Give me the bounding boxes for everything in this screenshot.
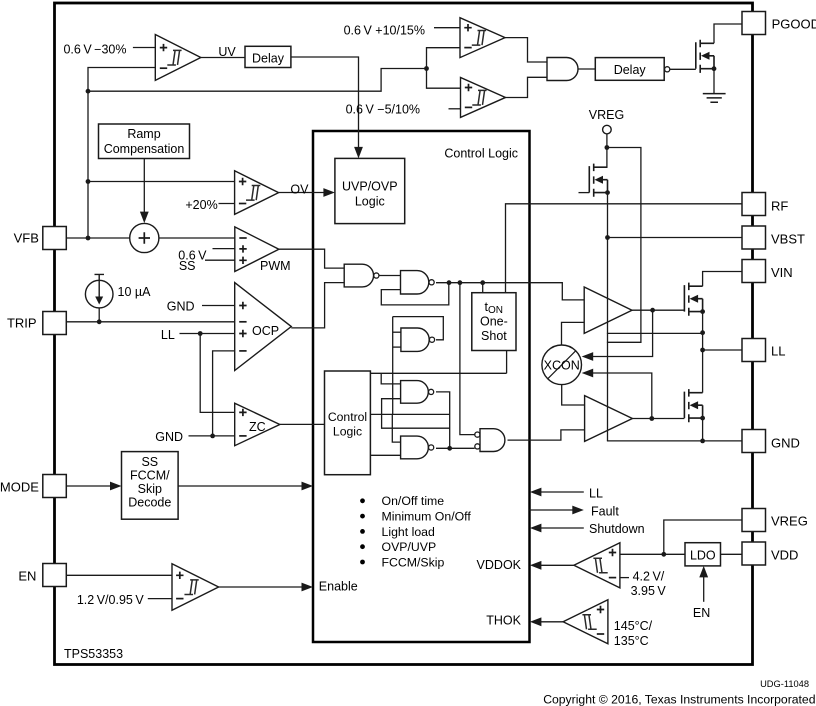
comparator UV (undervoltage) xyxy=(155,35,201,81)
wire +20% stub xyxy=(219,203,235,205)
control logic block (inner) xyxy=(325,371,371,475)
wire LL to ZC plus xyxy=(200,334,235,413)
wire PG-low minus stub xyxy=(449,108,461,110)
svg-text:LL: LL xyxy=(589,487,603,501)
svg-text:LDO: LDO xyxy=(690,549,716,563)
wire XCON to high-side driver enable xyxy=(562,322,585,345)
wire G2 output to G6 upper xyxy=(460,283,475,435)
arrowhead XCON upper sense xyxy=(582,352,594,361)
comparator OV (overvoltage +20%) xyxy=(235,171,279,215)
node switch node junction (LL) xyxy=(700,348,705,353)
wire LDO to VDD pin xyxy=(721,553,743,555)
Control Logic block (outer) xyxy=(313,131,530,642)
wire current source to TRIP line xyxy=(98,308,100,322)
svg-text:OV: OV xyxy=(290,183,309,197)
comparator ZC (zero cross) xyxy=(235,403,280,446)
arrowhead XCON lower sense xyxy=(582,369,594,378)
wire Delay2 to PGOOD FET gate xyxy=(670,68,696,70)
wire OCP output to NAND G1 lower xyxy=(291,283,344,328)
wire G4 lower input loop xyxy=(382,399,450,429)
plus input UV+ xyxy=(160,44,167,51)
wire LL pin line xyxy=(703,349,742,351)
svg-text:MODE: MODE xyxy=(0,480,39,495)
svg-text:Fault: Fault xyxy=(591,505,619,519)
svg-text:+20%: +20% xyxy=(185,198,217,212)
wire low-side driver output xyxy=(632,418,684,420)
svg-text:3.95 V: 3.95 V xyxy=(631,584,667,598)
wire G4 output down xyxy=(436,392,450,448)
wire G5 upper input xyxy=(392,414,400,442)
LDO block xyxy=(685,543,721,566)
comparator PG low (0.6V -5/10%) xyxy=(461,78,506,118)
node G2 output junction 3 xyxy=(480,280,485,285)
svg-text:On/Off time: On/Off time xyxy=(382,494,445,508)
wire boot switch source rail xyxy=(607,193,609,441)
svg-text:THOK: THOK xyxy=(486,614,521,628)
wire PGOOD FET drain to PGOOD pin xyxy=(714,24,743,43)
pin LL xyxy=(742,339,766,362)
plus input OV+ xyxy=(239,178,246,185)
svg-text:Shutdown: Shutdown xyxy=(589,522,645,536)
hysteresis symbol UV (undervoltage) xyxy=(167,50,181,65)
wire GND to OCP plus xyxy=(202,305,235,307)
svg-text:VIN: VIN xyxy=(771,265,793,280)
svg-text:RF: RF xyxy=(771,199,788,214)
pin VIN xyxy=(742,260,766,283)
wire boot switch gate stub xyxy=(579,192,590,194)
wire LS output to XCON sense xyxy=(593,373,652,419)
tON one-shot block xyxy=(472,293,516,351)
plus input OCP+2 xyxy=(239,330,246,337)
control logic function list xyxy=(360,498,365,503)
pin VREG xyxy=(742,509,766,532)
gate G2 NAND xyxy=(401,271,429,294)
svg-text:LL: LL xyxy=(771,344,785,359)
wire GND to ZC minus xyxy=(189,435,235,437)
wire OV output to UVP/OVP logic xyxy=(279,192,326,194)
svg-text:0.6 V −5/10%: 0.6 V −5/10% xyxy=(346,103,420,117)
svg-text:GND: GND xyxy=(167,300,195,314)
minus input PGH- xyxy=(464,47,471,49)
wire THOK line xyxy=(541,621,563,623)
svg-text:UDG-11048: UDG-11048 xyxy=(760,679,809,689)
wire G5 output to G6 xyxy=(436,447,475,449)
node HS gate node xyxy=(650,308,655,313)
pin EN xyxy=(43,564,67,587)
svg-text:OCP: OCP xyxy=(252,324,279,338)
arrowhead enable into control logic xyxy=(302,583,314,592)
svg-text:Light load: Light load xyxy=(382,525,435,539)
wire EN to LDO xyxy=(703,575,705,602)
svg-text:Ramp: Ramp xyxy=(127,127,160,141)
arrowhead LL status into control logic xyxy=(530,488,542,497)
node boot source node xyxy=(605,190,610,195)
wire Fault line xyxy=(530,509,573,511)
wire EN to comparator xyxy=(66,574,172,576)
wire LS source to GND xyxy=(702,418,704,441)
plus input PGH+ xyxy=(464,24,471,31)
hysteresis symbol THOK xyxy=(582,615,596,630)
plus input PWM+1 xyxy=(239,245,246,252)
svg-text:GND: GND xyxy=(771,436,800,451)
wire G2 output to high-side driver xyxy=(436,283,584,300)
wire HS drain to VIN pin xyxy=(703,272,742,287)
plus input PGL+ xyxy=(465,84,472,91)
node GND-ZC junction xyxy=(210,434,215,439)
wire 0.6V ref stub xyxy=(213,248,235,250)
transistor Q2 high-side power FET xyxy=(684,283,702,316)
svg-text:TPS53353: TPS53353 xyxy=(64,647,123,661)
svg-text:Control: Control xyxy=(328,410,367,424)
transistor Q3 low-side power FET xyxy=(684,389,702,422)
svg-text:Delay: Delay xyxy=(252,51,285,65)
comparator THOK (left facing) xyxy=(563,600,608,644)
pin MODE xyxy=(43,475,67,498)
transistor Q1 PGOOD open-drain xyxy=(696,40,714,73)
wire G6 output to low-side driver xyxy=(508,430,585,440)
arrowhead EN into LDO xyxy=(699,566,708,578)
wire PG-high output to AND xyxy=(505,38,547,62)
wire VREG pin to LDO input xyxy=(664,520,742,554)
SS FCCM/Skip Decode block xyxy=(122,452,179,520)
driver high-side xyxy=(584,287,632,333)
wire ZC output to control logic xyxy=(280,423,325,425)
svg-text:145°C/: 145°C/ xyxy=(614,619,653,633)
node switch node junction (boot) xyxy=(700,330,705,335)
hysteresis symbol OV (overvoltage +20%) xyxy=(246,186,260,201)
svg-text:ZC: ZC xyxy=(249,420,266,434)
svg-text:VDDOK: VDDOK xyxy=(477,558,522,572)
comparator PWM xyxy=(235,227,279,272)
ramp compensation block xyxy=(99,124,190,159)
wire VREG branch loop xyxy=(607,148,641,343)
delay block 2 xyxy=(595,58,664,81)
minus input EN- xyxy=(176,598,183,600)
arrowhead OV into UVP/OVP Logic xyxy=(323,188,335,197)
pin GND xyxy=(742,430,766,453)
arrowhead VDDOK into control logic xyxy=(530,561,542,570)
minus input PGL- xyxy=(465,106,472,108)
svg-text:SS: SS xyxy=(179,259,196,273)
wire UV minus input to VFB riser xyxy=(88,68,155,239)
driver low-side xyxy=(585,396,633,442)
wire SS stub xyxy=(205,259,235,261)
arrowhead into summing node xyxy=(140,212,149,224)
node PGOOD FET source node xyxy=(712,66,717,71)
svg-text:TRIP: TRIP xyxy=(7,316,37,331)
pin VBST xyxy=(742,226,766,249)
node PGOOD comparator input junction xyxy=(424,66,429,71)
wire one-shot bottom to control line xyxy=(506,351,508,374)
wire ramp comp to summer xyxy=(143,159,145,216)
wire trigger to one-shot xyxy=(482,283,484,293)
minus input VDDOK- xyxy=(609,577,616,579)
svg-text:VBST: VBST xyxy=(771,232,805,247)
node switch node (HS source) xyxy=(700,309,705,314)
minus input OV- xyxy=(239,203,246,205)
wire one-shot to RF pin xyxy=(506,204,743,293)
gate G1 NAND xyxy=(344,264,373,287)
svg-text:VREG: VREG xyxy=(771,514,808,529)
node LL input junction xyxy=(198,331,203,336)
wire VREG to boot switch drain xyxy=(606,134,608,168)
gate G3 NAND xyxy=(401,328,429,351)
wire VDDOK line xyxy=(541,564,574,566)
wire 1.2V stub xyxy=(148,598,172,600)
wire VDDOK threshold stub xyxy=(620,577,629,579)
svg-text:LL: LL xyxy=(161,328,175,342)
wire MODE to decoder xyxy=(66,485,112,487)
node VBST junction xyxy=(605,235,610,240)
wire decoder to control logic xyxy=(178,485,304,487)
svg-text:VREG: VREG xyxy=(589,108,624,122)
svg-text:Minimum On/Off: Minimum On/Off xyxy=(382,510,472,524)
arrowhead Shutdown into control logic xyxy=(530,524,542,533)
transistor Q4 bootstrap switch xyxy=(589,164,607,197)
wire branch to PG-high comparator minus xyxy=(427,48,461,69)
svg-text:4.2 V/: 4.2 V/ xyxy=(633,570,665,584)
svg-text:VDD: VDD xyxy=(771,548,798,563)
svg-text:PGOOD: PGOOD xyxy=(772,17,816,32)
svg-text:EN: EN xyxy=(693,606,710,620)
wire TRIP to OCP minus xyxy=(66,321,234,323)
summing node xyxy=(130,223,159,252)
svg-text:Logic: Logic xyxy=(355,195,385,209)
svg-text:EN: EN xyxy=(18,569,36,584)
svg-text:VFB: VFB xyxy=(14,231,39,246)
wire XCON to low-side driver enable xyxy=(562,384,585,405)
arrowhead THOK into control logic xyxy=(530,617,542,626)
terminal VREG xyxy=(603,125,612,134)
wire G3 upper input stub xyxy=(393,331,401,333)
node LDO input junction xyxy=(661,552,666,557)
svg-text:0.6 V +10/15%: 0.6 V +10/15% xyxy=(344,24,425,38)
plus input THOK+ xyxy=(597,606,604,613)
svg-text:OVP/UVP: OVP/UVP xyxy=(382,540,437,554)
wire LL status line xyxy=(541,491,584,493)
wire PGOOD FET source to ground xyxy=(713,69,715,94)
wire Shutdown line xyxy=(541,527,584,529)
pin VDD xyxy=(742,542,766,565)
svg-text:Decode: Decode xyxy=(128,496,171,510)
wire high-side driver output xyxy=(632,309,684,311)
node VFB feedback junction A xyxy=(86,89,91,94)
wire G3 output crosscouple xyxy=(393,317,444,340)
arrowhead Fault out xyxy=(572,506,584,515)
svg-text:FCCM/: FCCM/ xyxy=(130,469,170,483)
wire VBST line xyxy=(608,237,743,239)
UVP/OVP Logic block xyxy=(335,158,405,223)
node VFB feedback junction B (to OV+) xyxy=(86,179,91,184)
comparator OCP (overcurrent) xyxy=(235,283,292,371)
svg-text:1.2 V/0.95 V: 1.2 V/0.95 V xyxy=(77,593,145,607)
svg-text:XCON: XCON xyxy=(544,359,580,373)
svg-text:Copyright © 2016, Texas Instru: Copyright © 2016, Texas Instruments Inco… xyxy=(543,693,815,706)
wire GND line xyxy=(607,440,742,442)
ground symbol (PGOOD FET) xyxy=(703,94,726,103)
wire PWM output to NAND G1 xyxy=(279,249,344,268)
node G2 output junction 1 xyxy=(447,280,452,285)
wire G2 feedback loop xyxy=(381,283,449,305)
wire AND to Delay2 xyxy=(578,68,595,70)
wire boot refresh to switch node xyxy=(607,332,703,334)
svg-text:Delay: Delay xyxy=(614,63,647,77)
node TRIP junction xyxy=(97,319,102,324)
wire VFB pin to summer xyxy=(66,237,129,239)
svg-text:Compensation: Compensation xyxy=(104,142,185,156)
svg-text:UVP/OVP: UVP/OVP xyxy=(342,180,398,194)
wire G1 output to G2 xyxy=(379,275,400,277)
wire VFB long feedback line to PGOOD comparators xyxy=(88,69,427,92)
svg-text:Logic: Logic xyxy=(333,425,362,439)
plus input OCP+1 xyxy=(239,302,246,309)
wire G5 lower input xyxy=(370,454,400,456)
pin PGOOD xyxy=(742,12,766,35)
wire OCP minus2 to GND net xyxy=(213,351,235,436)
svg-text:0.6 V −30%: 0.6 V −30% xyxy=(63,43,126,57)
wire LL to OCP plus 2 xyxy=(180,333,235,335)
svg-text:Enable: Enable xyxy=(319,580,358,594)
wire VREG sense to LDO xyxy=(620,553,685,555)
plus input ZC+ xyxy=(239,409,246,416)
gate PGOOD AND xyxy=(547,58,578,81)
node GND junction xyxy=(700,439,705,444)
hysteresis symbol EN (1.2V/0.95V) xyxy=(184,580,198,595)
hysteresis symbol VDDOK xyxy=(593,558,607,573)
svg-text:Control Logic: Control Logic xyxy=(444,147,518,161)
pin VFB xyxy=(43,227,67,250)
svg-text:UV: UV xyxy=(218,45,236,59)
wire Delay1 to UVP/OVP logic xyxy=(291,57,359,151)
minus input THOK- xyxy=(597,633,604,635)
svg-text:SS: SS xyxy=(141,455,158,469)
node LS source node xyxy=(700,416,705,421)
wire switch node vertical xyxy=(702,312,704,393)
wire UV comparator output xyxy=(201,57,245,59)
node G2 output junction 2 xyxy=(458,280,463,285)
svg-text:Skip: Skip xyxy=(138,482,162,496)
wire G3 lower input stub xyxy=(393,346,401,348)
gate G5 NAND xyxy=(401,436,429,459)
minus input OCP-1 xyxy=(239,321,246,323)
wire branch to PG-low comparator plus xyxy=(427,69,461,89)
gate G4 NAND xyxy=(401,381,429,404)
wire 0.6V-30% stub xyxy=(133,47,155,49)
hysteresis symbol PG low (0.6V -5/10%) xyxy=(472,90,486,105)
svg-text:One-: One- xyxy=(480,315,508,329)
arrowhead into UVP/OVP Logic xyxy=(354,147,363,159)
wire VFB to OV comparator plus xyxy=(88,181,235,183)
pin RF xyxy=(742,193,766,216)
current source 10uA xyxy=(85,280,113,308)
minus input PWM- xyxy=(239,237,246,239)
wire LS drain stub xyxy=(702,392,704,394)
wire EN comparator output xyxy=(219,586,304,588)
wire G4 upper input xyxy=(381,373,400,384)
wire PG-low output to AND xyxy=(506,77,548,97)
svg-text:135°C: 135°C xyxy=(614,634,649,648)
wire HS output to XCON sense xyxy=(593,310,653,356)
delay block 1 xyxy=(245,46,291,67)
node VFB pin junction xyxy=(86,236,91,241)
comparator VDDOK (left facing) xyxy=(574,543,620,588)
plus input EN+ xyxy=(176,572,183,579)
node G4/G5 output junction xyxy=(447,446,452,451)
hysteresis symbol PG high (0.6V +10/15%) xyxy=(472,31,486,46)
XCON block xyxy=(542,345,582,385)
pin TRIP xyxy=(43,312,67,335)
wire control line to control logic box xyxy=(370,372,506,374)
arrowhead into SS FCCM decode xyxy=(110,482,122,491)
gate G6 AND with inverted inputs xyxy=(475,432,480,437)
arrowhead decode into control logic xyxy=(302,482,314,491)
plus input VDDOK+ xyxy=(609,549,616,556)
svg-text:GND: GND xyxy=(155,430,183,444)
svg-text:Shot: Shot xyxy=(481,329,507,343)
plus input PWM+2 xyxy=(239,257,246,264)
svg-text:PWM: PWM xyxy=(260,259,291,273)
node LS gate node xyxy=(649,416,654,421)
wire latch feedback vertical xyxy=(392,317,394,415)
wire PG-high plus stub xyxy=(434,27,460,29)
minus input OCP-2 xyxy=(239,350,246,352)
inverter bubble on Delay 2 output xyxy=(665,67,670,72)
svg-text:10 µA: 10 µA xyxy=(118,285,152,299)
minus input ZC- xyxy=(239,435,246,437)
svg-text:FCCM/Skip: FCCM/Skip xyxy=(382,555,445,569)
node VREG branch junction xyxy=(605,145,610,150)
minus input UV- xyxy=(160,67,167,69)
comparator PG high (0.6V +10/15%) xyxy=(460,18,505,58)
comparator EN (1.2V/0.95V) xyxy=(172,564,219,611)
wire summer to PWM comparator xyxy=(159,237,235,239)
wire control to latch line xyxy=(370,413,449,415)
